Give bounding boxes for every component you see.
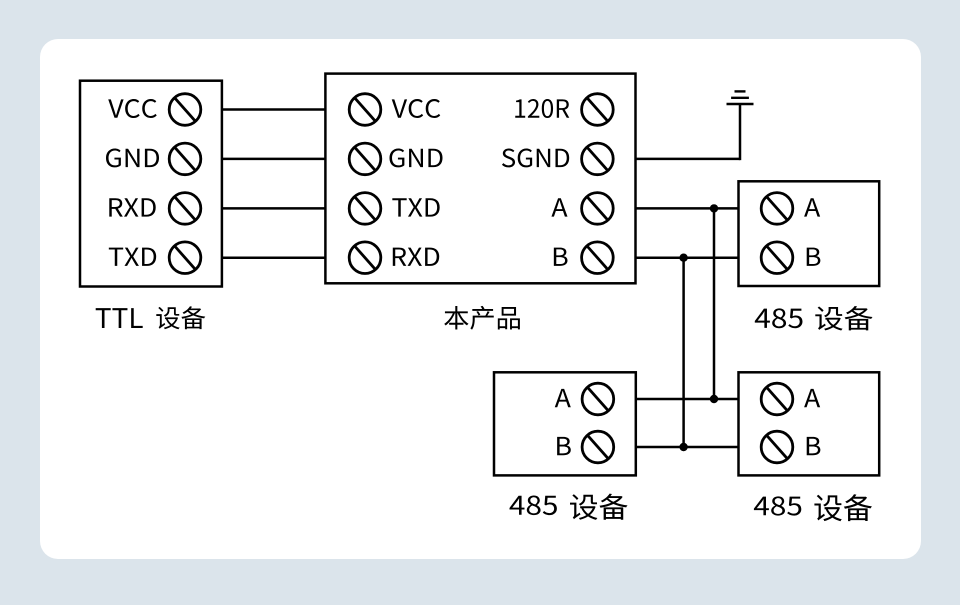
screw terminal SGND (product right) — [582, 143, 614, 175]
screw terminal A (485 device bottom-left) — [582, 383, 614, 415]
junction dot: bottom wire A / vertical bus — [710, 395, 718, 403]
caption "设备" (TTL device) — [156, 306, 205, 329]
wire A: 485 bottom-left to bottom-right — [636, 398, 739, 401]
screw terminal VCC (product left) — [349, 94, 381, 126]
screw terminal B (product right) — [582, 242, 614, 274]
wire B: product to 485 top-right — [636, 256, 739, 259]
pin label 120R (product right) — [515, 99, 569, 118]
wire GND: TTL to product — [222, 158, 326, 161]
pin label RXD (product left) — [393, 248, 439, 266]
screw terminal A (485 device top-right) — [761, 193, 793, 225]
wire SGND to ground, vertical segment — [739, 104, 742, 160]
pin label A (485 device bottom-right) — [804, 389, 820, 407]
wire SGND to ground, horizontal segment — [636, 158, 741, 161]
screw terminal A (485 device bottom-right) — [761, 383, 793, 415]
pin label GND (TTL device) — [106, 148, 159, 167]
caption "设备" (485 device top-right) — [815, 306, 872, 331]
pin label A (485 device top-right) — [804, 198, 820, 216]
caption "TTL" (TTL device) — [96, 308, 143, 328]
pin label B (485 device bottom-right) — [807, 437, 821, 455]
pin label VCC (TTL device) — [108, 99, 157, 118]
white rounded card — [40, 39, 921, 559]
screw terminal 120R (product right) — [582, 94, 614, 126]
screw terminal GND (product left) — [349, 143, 381, 175]
pin label B (485 device top-right) — [807, 248, 821, 266]
junction dot: wire A / vertical bus — [710, 204, 718, 212]
device box: 485 设备 bottom-right — [739, 372, 880, 475]
pin label RXD (TTL device) — [109, 198, 155, 216]
junction dot: wire B / vertical bus — [679, 254, 687, 262]
screw terminal A (product right) — [582, 193, 614, 225]
wire RXD-TXD: TTL to product — [222, 207, 326, 210]
caption "485" (485 device bottom-left) — [509, 495, 556, 515]
caption "485" (485 device top-right) — [755, 308, 803, 328]
device box: 485 设备 top-right — [739, 181, 880, 286]
caption "本产品" (product) — [444, 306, 520, 330]
pin label B (485 device bottom-left) — [557, 437, 571, 455]
screw terminal B (485 device bottom-left) — [582, 431, 614, 463]
screw terminal GND (TTL device) — [169, 143, 201, 175]
screw terminal RXD (product left) — [349, 242, 381, 274]
wire TXD-RXD: TTL to product — [222, 256, 326, 259]
screw terminal B (485 device bottom-right) — [761, 431, 793, 463]
wire A bus vertical drop — [713, 208, 716, 399]
pin label VCC (product left) — [392, 99, 441, 118]
pin label SGND (product right) — [502, 148, 569, 167]
wire B bus vertical drop — [682, 258, 685, 447]
pin label TXD (product left) — [392, 198, 439, 216]
ground symbol (signal ground) — [727, 91, 754, 104]
wire VCC: TTL to product — [222, 108, 326, 111]
screw terminal TXD (product left) — [349, 193, 381, 225]
pin label GND (product left) — [389, 148, 442, 167]
pin label TXD (TTL device) — [109, 248, 156, 266]
device box: 本产品 (TTL to RS485 converter) — [325, 74, 635, 284]
device box: 485 设备 bottom-left — [494, 372, 636, 475]
wire A: product to 485 top-right — [636, 207, 739, 210]
wire B: 485 bottom-left to bottom-right — [636, 446, 739, 449]
device box: TTL 设备 — [80, 81, 222, 287]
screw terminal VCC (TTL device) — [169, 94, 201, 126]
screw terminal RXD (TTL device) — [169, 193, 201, 225]
screw terminal B (485 device top-right) — [761, 242, 793, 274]
screw terminal TXD (TTL device) — [169, 242, 201, 274]
caption "设备" (485 device bottom-left) — [570, 494, 628, 520]
pin label B (product right) — [554, 248, 568, 266]
pin label A (product right) — [551, 198, 567, 216]
junction dot: bottom wire B / vertical bus — [679, 443, 687, 451]
caption "设备" (485 device bottom-right) — [814, 494, 872, 521]
pin label A (485 device bottom-left) — [555, 389, 571, 407]
caption "485" (485 device bottom-right) — [754, 496, 801, 515]
